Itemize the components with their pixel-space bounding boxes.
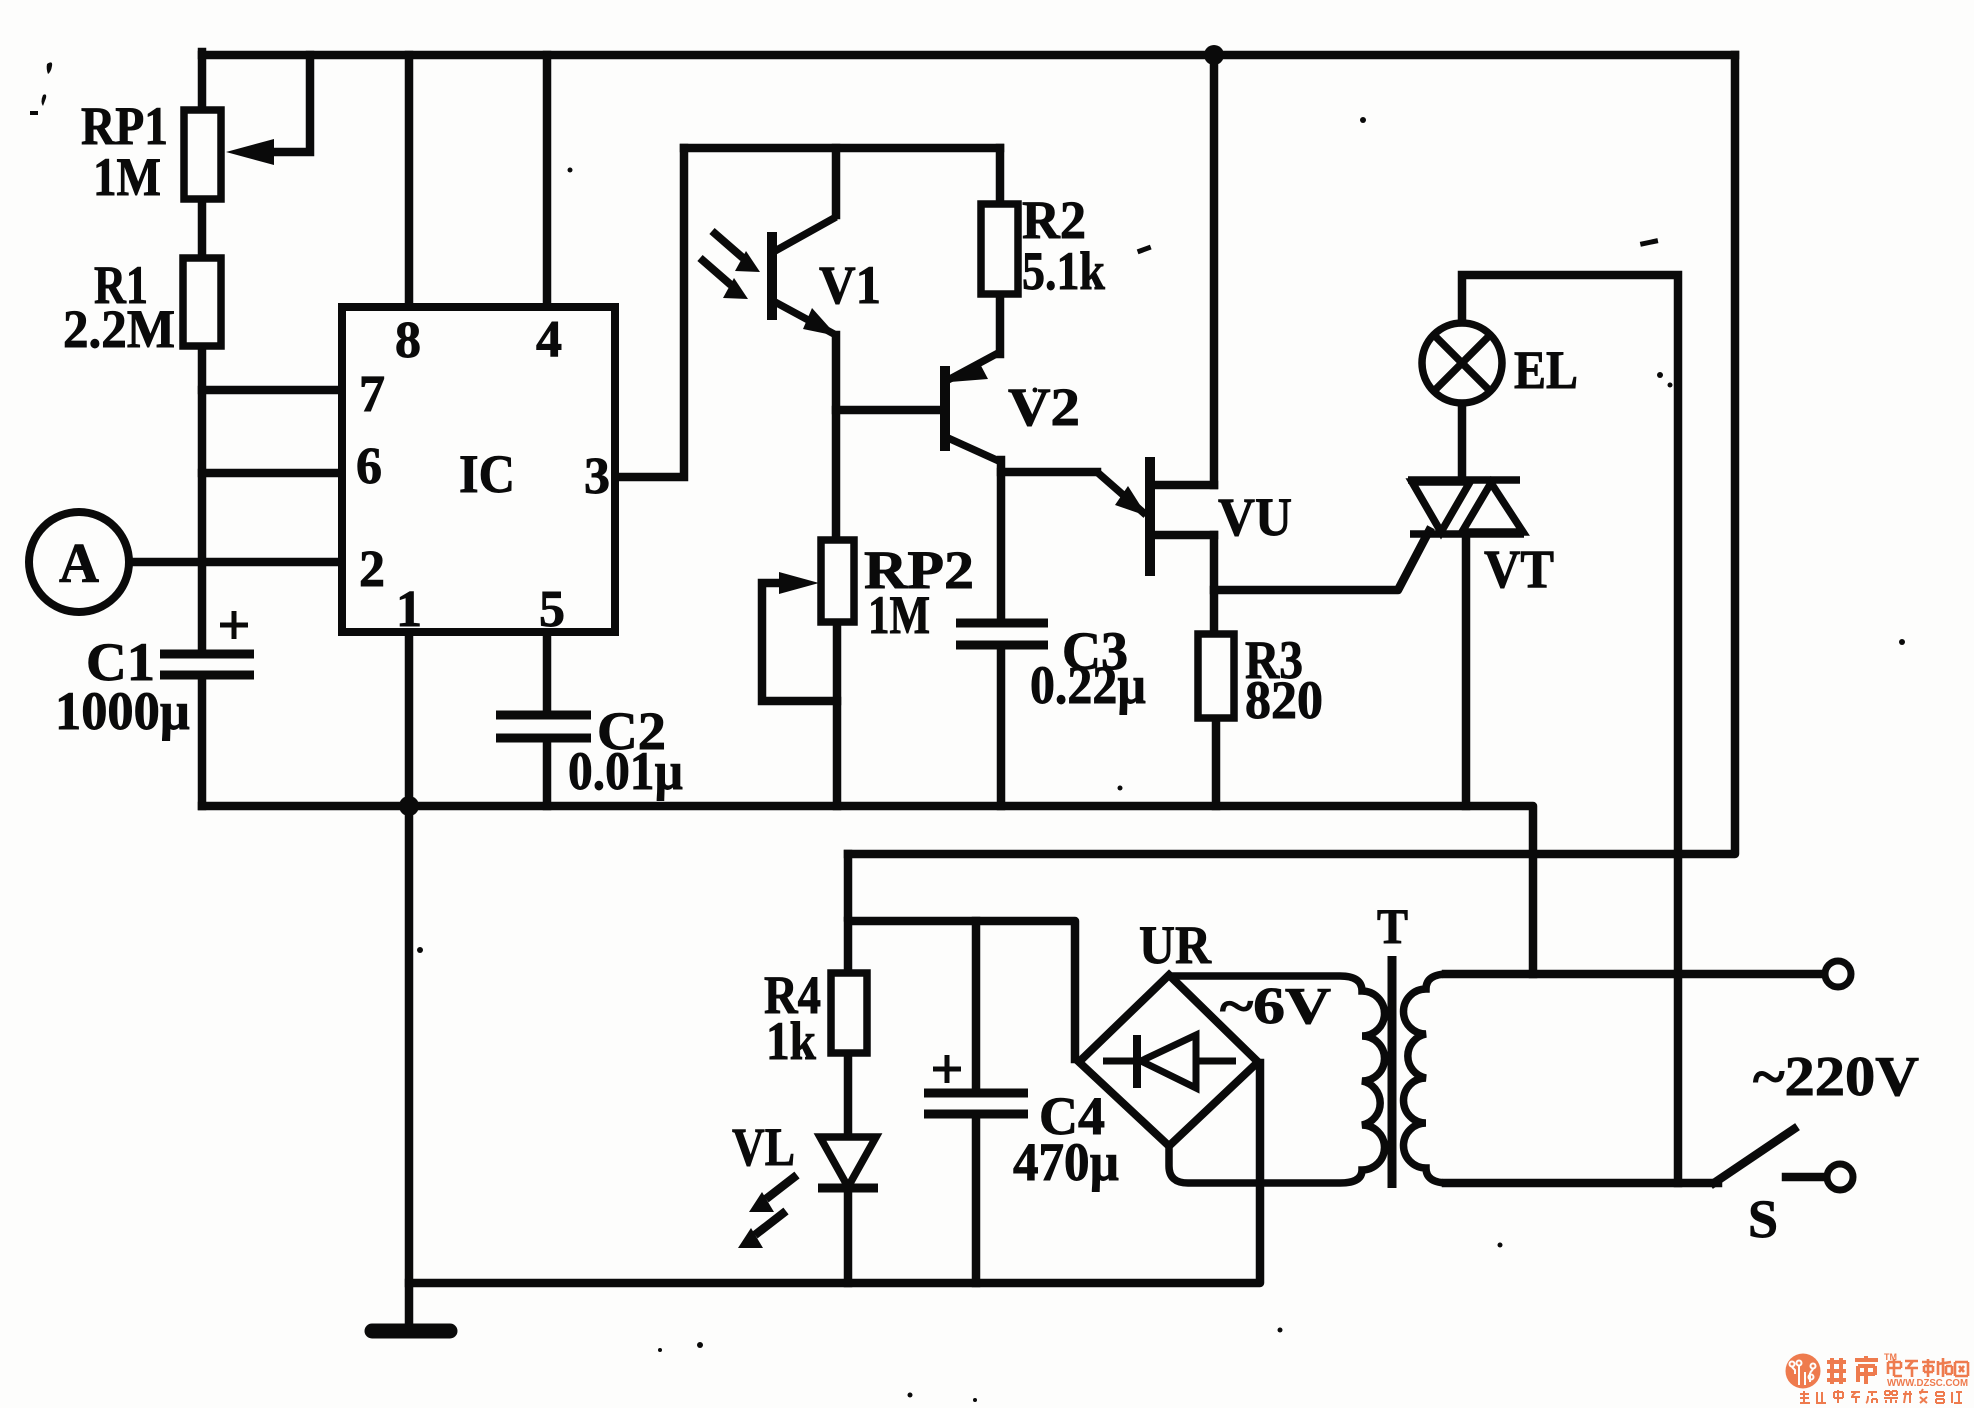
wire RP1 top [198,52,207,112]
svg-text:6: 6 [356,438,382,495]
capacitor C1 [160,611,254,675]
wire pin 5 to C2 [543,632,552,715]
wire mains upper line [1446,970,1822,979]
wire primary bottom line [1446,1179,1718,1188]
svg-text:VT: VT [1484,539,1554,599]
potentiometer RP1 [184,110,274,199]
svg-text:UR: UR [1139,915,1212,975]
svg-text:S: S [1748,1189,1778,1249]
svg-text:0.01µ: 0.01µ [568,741,683,801]
wire RP2 wiper loop [762,583,837,701]
wire C4 bottom [972,1114,981,1283]
wire pin 7 [202,386,342,395]
wire VU top lead [1150,481,1214,490]
svg-text:3: 3 [584,448,610,505]
svg-text:1M: 1M [868,585,930,645]
wire pin 1 to ground [405,632,414,1324]
wire mid rail y148 [684,144,1000,153]
wire EL top loop [1462,275,1678,1183]
svg-text:T: T [1377,898,1408,954]
wire V2 emitter to C3 [997,460,1006,623]
LED VL [738,1137,878,1248]
wire VU to R3 [1210,535,1219,634]
svg-text:1000µ: 1000µ [55,681,190,741]
svg-text:7: 7 [359,366,385,423]
potentiometer RP2 [779,540,854,622]
svg-text:IC: IC [459,444,515,504]
wire C4 top stub [972,921,981,1093]
wire VL bottom [844,1188,853,1283]
svg-text:1M: 1M [93,147,161,207]
wire RP1 to R1 [198,198,207,260]
wire VT bottom [1462,534,1471,806]
svg-text:0.22µ: 0.22µ [1030,655,1146,715]
capacitor C2 [496,715,591,738]
resistor R1 [183,258,221,346]
ground [372,1324,450,1339]
wire C3 bottom [997,645,1006,806]
wire RP1 wiper to top rail [250,55,310,152]
node junction VU top rail [1204,45,1224,65]
wire C1 bottom [198,675,207,806]
wire R4 to VL [844,1053,853,1137]
wire R1 to C1 [198,350,207,654]
wire bottom bus [409,1063,1260,1283]
microphone A [29,512,129,612]
wire R3 bottom [1212,718,1221,806]
transformer T primary winding [1404,974,1822,1183]
svg-text:VL: VL [732,1117,795,1177]
watermark slogan [1800,1389,1962,1403]
svg-text:1: 1 [396,581,422,638]
resistor R3 [1198,634,1234,718]
svg-text:470µ: 470µ [1013,1132,1119,1192]
svg-text:4: 4 [536,311,562,368]
svg-text:~6V: ~6V [1220,978,1331,1035]
node junction pin1 bus [399,796,419,816]
wire EL to VT [1458,404,1467,480]
wire V2 base [836,406,941,415]
wire top rail right drop to y858 [848,55,1735,854]
capacitor C4 [924,1055,1028,1114]
bridge rectifier UR [1079,975,1258,1146]
triac VT [1408,480,1524,534]
wire VU bottom lead [1150,531,1214,540]
wire V1 emitter down to RP2 [832,335,841,540]
capacitor C3 [956,623,1048,645]
transformer T core [1388,956,1397,1188]
wire C2 bottom [543,738,552,806]
svg-text:VU: VU [1218,487,1292,547]
wire switch lead [1786,1173,1824,1182]
transistor VU unijunction [1097,457,1150,576]
svg-text:2: 2 [359,541,385,598]
resistor R4 [831,973,867,1053]
wire R2 bottom [996,294,1005,354]
wire y858 left drop and bridge plus [848,854,1075,1059]
op-amp U1 IC box [342,307,615,632]
wire pin 6 [202,469,342,478]
wire top rail [202,51,1735,60]
svg-text:V2: V2 [1008,377,1080,437]
svg-text:820: 820 [1245,670,1323,730]
wire gate to triac [1214,531,1429,590]
lamp EL [1422,323,1502,403]
svg-text:EL: EL [1514,340,1578,400]
svg-text:1k: 1k [766,1011,816,1071]
watermark medium characters [1888,1358,1968,1377]
wire VU feed from top rail [1210,55,1219,485]
wire V2 emitter to VU [1001,468,1097,477]
wire pin 8 [405,55,414,307]
wire switch blade [1714,1129,1794,1183]
wire pin 4 [543,55,552,307]
transistor V1 phototransistor [700,217,837,336]
wire bus 806 and drop to mains [202,806,1533,974]
wire V1 collector drop [832,148,841,215]
transformer T secondary winding [1169,976,1385,1183]
svg-text:A: A [59,533,100,595]
svg-text:5.1k: 5.1k [1022,241,1105,301]
svg-text:WWW.DZSC.COM: WWW.DZSC.COM [1887,1377,1968,1389]
svg-text:~220V: ~220V [1753,1046,1919,1108]
svg-text:V1: V1 [819,255,881,315]
svg-text:8: 8 [395,312,421,369]
mains terminal upper [1825,961,1851,987]
watermark logo [1786,1354,1821,1389]
resistor R2 [981,204,1018,294]
watermark big characters [1827,1356,1878,1384]
wire RP2 bottom [833,622,842,806]
svg-text:2.2M: 2.2M [63,299,175,359]
wire R4 stub [844,921,853,973]
wire A to pin 2 [131,558,342,567]
mains terminal lower [1827,1164,1853,1190]
wire R2 top [996,148,1005,204]
transistor V2 [945,352,1001,462]
svg-text:5: 5 [539,581,565,638]
wire pin 3 [615,148,684,477]
